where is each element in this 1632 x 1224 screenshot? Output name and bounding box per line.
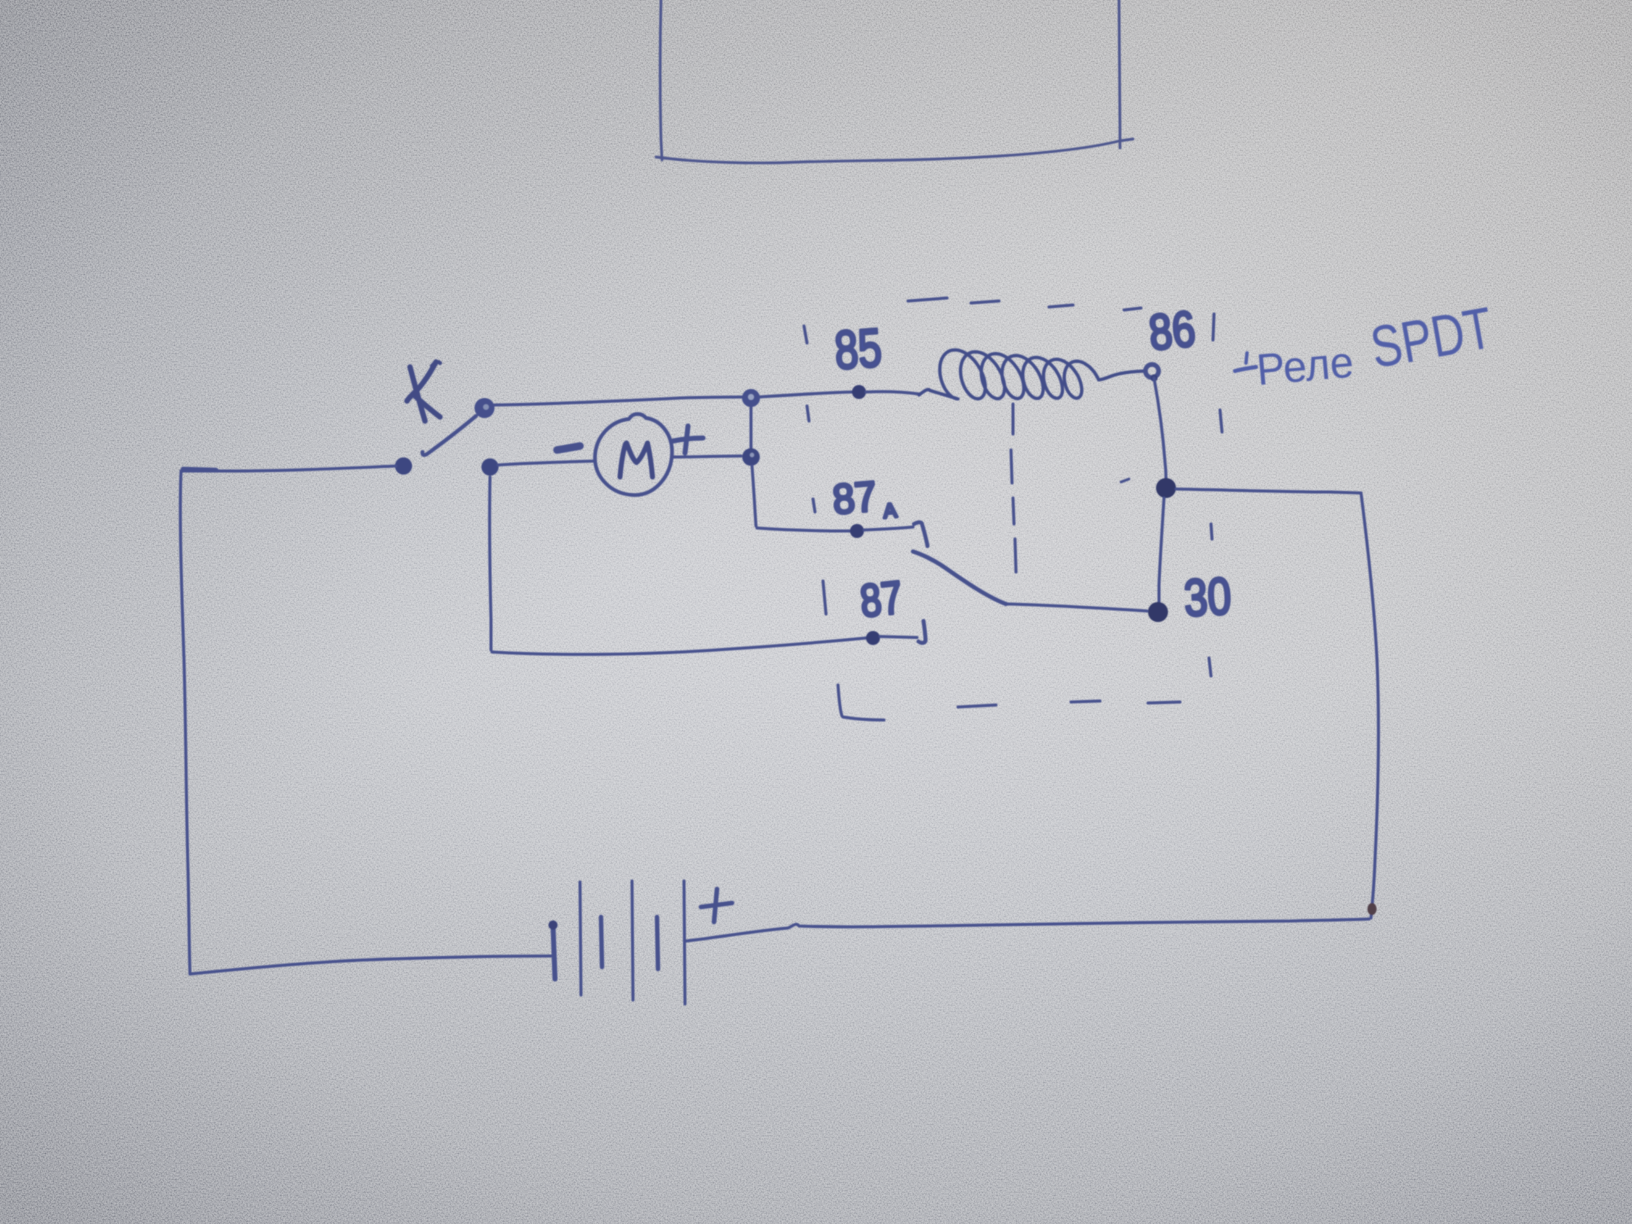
contact 87 bbox=[919, 621, 926, 643]
wire top box right vertical bbox=[1119, 0, 1120, 148]
relay common contact arm bbox=[913, 552, 1006, 605]
wire motor positive lead bbox=[672, 456, 741, 457]
wire top box left vertical bbox=[656, 0, 1133, 163]
wire terminal 85 to coil bbox=[866, 392, 919, 394]
label Реле SPDT bbox=[1235, 296, 1497, 395]
switch K arm bbox=[422, 416, 476, 455]
label - motor negative bbox=[557, 446, 580, 450]
wire node A to node B bbox=[750, 407, 753, 448]
svg-text:87: 87 bbox=[858, 571, 905, 627]
label 87A bbox=[831, 472, 899, 523]
svg-text:A: A bbox=[883, 500, 899, 523]
node 30 bbox=[1148, 602, 1168, 622]
svg-text:86: 86 bbox=[1146, 300, 1198, 361]
motor M1 body bbox=[595, 414, 672, 495]
wire junction C down to terminal 30 bbox=[1159, 498, 1164, 602]
node 87 bbox=[866, 631, 880, 645]
relay enclosure dashed box bbox=[804, 298, 1222, 720]
wire 87A lead bbox=[757, 528, 850, 531]
junction node B bbox=[742, 448, 760, 466]
label + motor positive bbox=[673, 426, 703, 453]
wire node B down to 87A lead bbox=[752, 466, 756, 526]
switch K pivot node bbox=[475, 398, 495, 418]
node 86 bbox=[1145, 364, 1158, 381]
battery BT1 bbox=[548, 881, 685, 1004]
wire bottom left to battery bbox=[190, 956, 551, 974]
wire node A to terminal 85 bbox=[759, 392, 852, 397]
wire bottom 87 lead bbox=[492, 638, 866, 654]
wire motor node down left branch bbox=[490, 477, 491, 650]
svg-text:30: 30 bbox=[1183, 568, 1233, 628]
wire retrace dash at left corner bbox=[183, 469, 216, 470]
junction bottom right corner bbox=[1367, 903, 1376, 915]
svg-text:87: 87 bbox=[831, 472, 879, 523]
node 87A bbox=[850, 524, 864, 538]
wire right vertical side bbox=[1361, 493, 1378, 918]
contact 87A bbox=[914, 522, 928, 546]
wire top box bottom horizontal bbox=[656, 139, 1133, 163]
node 85 bbox=[852, 385, 866, 399]
wire node 86 down to junction C bbox=[1154, 378, 1166, 479]
label K switch designator bbox=[407, 362, 440, 421]
wire battery positive to right corner bbox=[686, 919, 1369, 941]
relay coil bbox=[919, 350, 1145, 399]
relay armature mechanical link dashed bbox=[1011, 404, 1016, 572]
junction motor left node bbox=[481, 458, 498, 475]
wire 87A to contact bbox=[864, 527, 913, 530]
wire terminal 30 to armature bbox=[1007, 604, 1147, 611]
svg-text:Реле: Реле bbox=[1255, 338, 1356, 395]
junction node A bbox=[742, 389, 760, 407]
stray tick near junction C bbox=[1121, 479, 1129, 482]
wire switch terminal to left corner bbox=[181, 466, 396, 471]
wire switch to node A bbox=[494, 397, 742, 405]
svg-text:85: 85 bbox=[833, 318, 884, 381]
node switch left terminal bbox=[395, 457, 412, 474]
junction C bbox=[1156, 478, 1176, 498]
wire 87 to contact bbox=[880, 637, 917, 638]
wire motor negative lead bbox=[498, 461, 595, 465]
wire left vertical side bbox=[180, 472, 190, 974]
wire junction C to right side bbox=[1176, 489, 1361, 493]
motor M1 letter M bbox=[620, 443, 653, 477]
label + battery positive bbox=[701, 889, 732, 922]
